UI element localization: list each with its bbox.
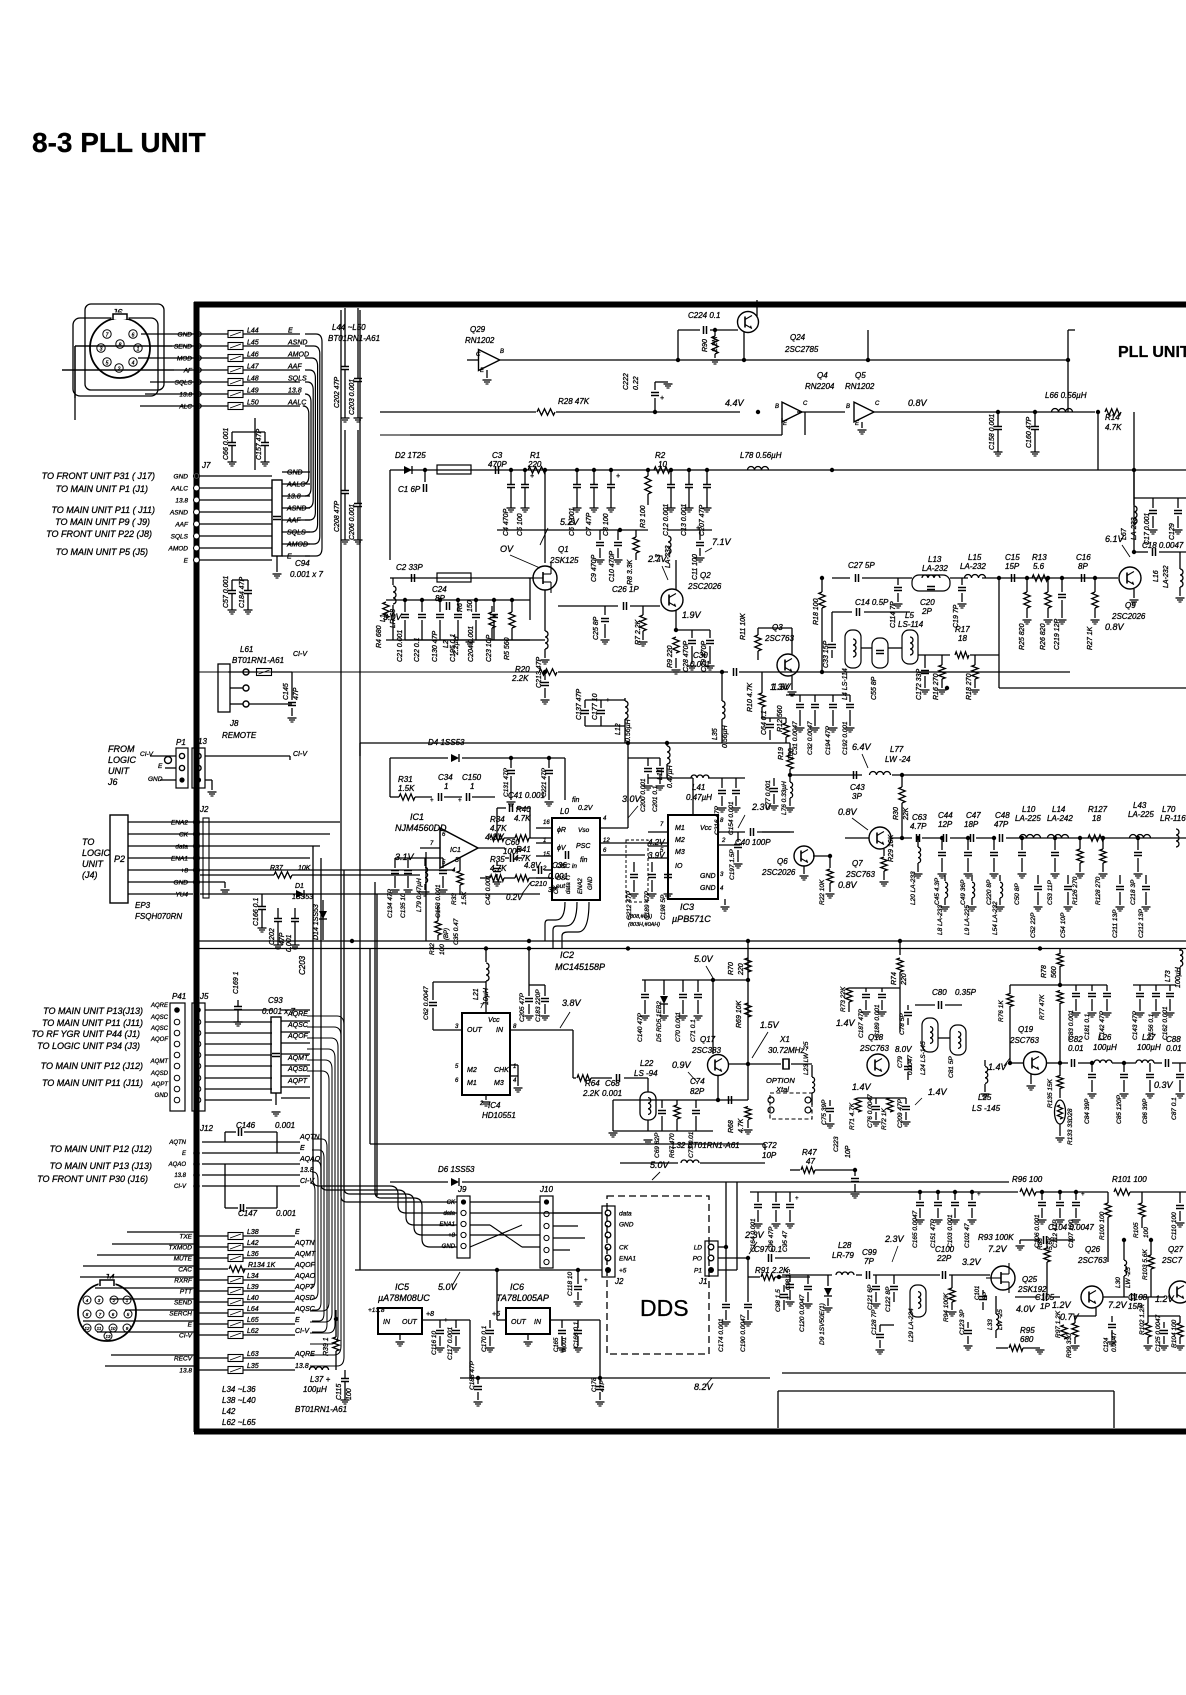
svg-text:1: 1: [470, 782, 474, 791]
svg-text:(803H,#0AH): (803H,#0AH): [628, 922, 660, 928]
svg-text:C: C: [875, 401, 880, 407]
svg-text:3: 3: [100, 346, 103, 352]
svg-text:Q19: Q19: [1018, 1025, 1034, 1034]
svg-text:L78 0.56µH: L78 0.56µH: [740, 451, 782, 460]
svg-text:J13: J13: [193, 737, 207, 746]
svg-text:C174 0.001: C174 0.001: [718, 1318, 725, 1352]
svg-text:TO LOGIC UNIT P34 (J3): TO LOGIC UNIT P34 (J3): [37, 1041, 140, 1051]
svg-text:CHK: CHK: [494, 1067, 509, 1074]
svg-text:C134 47P: C134 47P: [387, 888, 394, 918]
svg-text:L54 LA-232: L54 LA-232: [992, 901, 999, 935]
svg-text:47P: 47P: [293, 687, 300, 700]
svg-text:L44: L44: [247, 328, 259, 335]
svg-text:C103 0.001: C103 0.001: [947, 1214, 954, 1248]
svg-text:C11 100: C11 100: [692, 554, 699, 580]
svg-text:C183 220P: C183 220P: [535, 989, 542, 1022]
svg-text:AQOF: AQOF: [150, 1037, 168, 1043]
svg-text:R19: R19: [778, 747, 785, 760]
svg-text:C63: C63: [912, 813, 927, 822]
svg-text:C137 47P: C137 47P: [576, 689, 583, 720]
svg-text:D5 RD5.1EB2: D5 RD5.1EB2: [656, 1001, 663, 1042]
svg-text:TO MAIN UNIT P13(J13): TO MAIN UNIT P13(J13): [43, 1006, 143, 1016]
svg-text:R7 2.2K: R7 2.2K: [635, 619, 642, 645]
svg-text:L13: L13: [928, 555, 942, 564]
svg-text:AQSD: AQSD: [150, 1071, 169, 1077]
svg-text:Q7: Q7: [852, 859, 863, 868]
svg-text:22K: 22K: [903, 807, 910, 821]
svg-text:ϕV: ϕV: [557, 845, 567, 852]
svg-text:5.2V: 5.2V: [560, 517, 580, 527]
svg-text:4.7K: 4.7K: [490, 824, 507, 833]
svg-text:4.7K: 4.7K: [1105, 423, 1122, 432]
svg-text:AQAO: AQAO: [299, 1156, 321, 1163]
svg-text:2SC2026: 2SC2026: [687, 582, 722, 591]
svg-text:C218 3P: C218 3P: [1130, 879, 1137, 905]
svg-text:R27 1K: R27 1K: [1087, 626, 1094, 650]
svg-text:2.2M: 2.2M: [712, 336, 719, 353]
svg-text:4.0V: 4.0V: [1016, 1304, 1036, 1314]
svg-text:C54 10P: C54 10P: [1060, 912, 1067, 938]
svg-text:AQMT: AQMT: [287, 1055, 309, 1062]
svg-text:E: E: [184, 558, 189, 565]
svg-text:M2: M2: [467, 1067, 477, 1074]
svg-text:LOGIC: LOGIC: [108, 755, 137, 765]
svg-text:TO FRONT UNIT P31 ( J17): TO FRONT UNIT P31 ( J17): [42, 471, 155, 481]
svg-text:GND: GND: [155, 1093, 169, 1099]
svg-text:C98 1.5: C98 1.5: [775, 1289, 782, 1312]
svg-text:R6: R6: [457, 603, 464, 612]
svg-text:2.3V: 2.3V: [884, 1234, 905, 1244]
svg-text:J2: J2: [614, 1277, 624, 1286]
svg-text:L62: L62: [247, 1328, 259, 1335]
svg-text:(BP): (BP): [444, 928, 450, 940]
svg-text:AQSC: AQSC: [150, 1015, 169, 1021]
svg-text:L49: L49: [247, 388, 259, 395]
svg-text:100µH: 100µH: [1175, 966, 1182, 988]
svg-text:R8 3.3K: R8 3.3K: [627, 559, 634, 585]
svg-text:2SK125: 2SK125: [549, 556, 579, 565]
svg-text:B: B: [846, 404, 850, 410]
svg-text:L27: L27: [1142, 1033, 1156, 1042]
svg-text:C30: C30: [693, 651, 708, 660]
svg-text:P1: P1: [176, 738, 186, 747]
svg-text:AQTN: AQTN: [299, 1134, 320, 1141]
svg-text:P2: P2: [114, 854, 125, 864]
svg-text:GND: GND: [700, 873, 716, 880]
svg-text:CAC: CAC: [178, 1267, 192, 1274]
svg-text:LA-225: LA-225: [1128, 810, 1154, 819]
svg-text:C95 47: C95 47: [782, 1231, 789, 1252]
svg-text:R3 100: R3 100: [640, 505, 647, 528]
svg-text:8.0V: 8.0V: [895, 1045, 912, 1054]
svg-text:C172 33P: C172 33P: [916, 669, 923, 700]
svg-text:µA78M08UC: µA78M08UC: [378, 1293, 430, 1303]
svg-text:C97 0.1: C97 0.1: [754, 1245, 782, 1254]
svg-text:C15: C15: [1005, 553, 1020, 562]
svg-text:10: 10: [110, 1326, 116, 1331]
svg-text:+5: +5: [619, 1268, 627, 1275]
svg-text:3P: 3P: [548, 887, 557, 894]
svg-text:CI-V: CI-V: [293, 651, 308, 658]
svg-text:TO MAIN UNIT P12 (J12): TO MAIN UNIT P12 (J12): [41, 1061, 143, 1071]
svg-text:L3: L3: [655, 554, 662, 562]
svg-text:L46: L46: [247, 352, 259, 359]
svg-text:BT01RN1-A61: BT01RN1-A61: [295, 1405, 347, 1414]
svg-text:C135 10: C135 10: [400, 893, 407, 918]
svg-text:AALC: AALC: [286, 482, 306, 489]
svg-text:47: 47: [806, 1157, 815, 1166]
svg-text:LOGIC: LOGIC: [82, 848, 111, 858]
svg-text:BT01RN1-A61: BT01RN1-A61: [328, 334, 380, 343]
svg-text:+13.8: +13.8: [368, 1307, 385, 1314]
svg-text:J6: J6: [107, 777, 118, 787]
svg-text:+: +: [606, 698, 610, 704]
svg-text:R18 100: R18 100: [813, 598, 820, 625]
svg-text:PO: PO: [693, 1256, 702, 1263]
svg-text:C: C: [476, 352, 481, 358]
svg-text:Xtal: Xtal: [775, 1085, 789, 1094]
svg-text:18P: 18P: [964, 820, 979, 829]
svg-text:C222: C222: [623, 373, 630, 390]
svg-text:C150: C150: [462, 773, 482, 782]
svg-text:CK: CK: [619, 1245, 629, 1252]
svg-text:RXRF: RXRF: [174, 1278, 193, 1285]
svg-text:C7 47P: C7 47P: [586, 512, 593, 536]
svg-text:R17: R17: [955, 625, 970, 634]
svg-text:TO: TO: [82, 837, 94, 847]
svg-text:GND: GND: [178, 332, 193, 339]
svg-text:L79 0.47µH: L79 0.47µH: [416, 878, 423, 912]
svg-text:3.2V: 3.2V: [962, 1257, 982, 1267]
svg-text:C84 39P: C84 39P: [1084, 1098, 1091, 1124]
svg-text:8P: 8P: [1078, 562, 1088, 571]
svg-text:R135 15K: R135 15K: [1047, 1078, 1054, 1108]
svg-text:1.2V: 1.2V: [1052, 1300, 1072, 1310]
svg-text:AQSC: AQSC: [287, 1022, 309, 1029]
svg-text:2SC763: 2SC763: [845, 870, 875, 879]
svg-text:CK: CK: [447, 1200, 456, 1206]
svg-text:J5: J5: [199, 992, 209, 1001]
svg-text:2SC7: 2SC7: [1161, 1256, 1183, 1265]
svg-text:C24: C24: [432, 585, 447, 594]
svg-text:L41: L41: [692, 783, 705, 792]
svg-text:+: +: [696, 525, 700, 532]
svg-text:IN: IN: [496, 1027, 504, 1034]
svg-text:100P: 100P: [503, 847, 522, 856]
svg-text:1.4V: 1.4V: [988, 1062, 1008, 1072]
svg-text:ENA1: ENA1: [171, 856, 188, 863]
svg-text:R30: R30: [893, 807, 900, 820]
svg-text:4.7P: 4.7P: [910, 822, 927, 831]
svg-text:L45: L45: [247, 340, 259, 347]
svg-text:GND: GND: [174, 474, 189, 481]
svg-text:C41 0.001: C41 0.001: [508, 791, 545, 800]
svg-text:UNIT: UNIT: [82, 859, 104, 869]
svg-text:Q2: Q2: [700, 571, 711, 580]
svg-text:+: +: [786, 1296, 790, 1302]
svg-text:LA-225: LA-225: [1015, 814, 1041, 823]
svg-text:5.6: 5.6: [1033, 562, 1045, 571]
svg-text:C9 470P: C9 470P: [591, 554, 598, 582]
svg-text:TO MAIN UNIT P11 ( J11): TO MAIN UNIT P11 ( J11): [51, 505, 155, 515]
svg-text:AAF: AAF: [174, 522, 189, 529]
svg-text:L30: L30: [1115, 1277, 1122, 1288]
svg-text:R12 560: R12 560: [777, 705, 784, 732]
svg-text:IN: IN: [534, 1319, 542, 1326]
svg-text:L34 ~L36: L34 ~L36: [222, 1385, 256, 1394]
svg-text:C70 0.001: C70 0.001: [675, 1012, 682, 1042]
svg-text:C145: C145: [283, 683, 290, 700]
svg-text:NJM4560DD: NJM4560DD: [395, 823, 447, 833]
svg-text:AQRE: AQRE: [150, 1003, 169, 1009]
svg-text:C158 0.001: C158 0.001: [989, 414, 996, 450]
svg-text:C76 0.0047: C76 0.0047: [867, 1094, 874, 1128]
svg-text:L29 LA-234: L29 LA-234: [908, 1308, 915, 1342]
svg-text:2.2K: 2.2K: [511, 674, 529, 683]
svg-text:C99: C99: [862, 1248, 877, 1257]
svg-text:C212 13P: C212 13P: [1138, 908, 1145, 938]
svg-text:47P: 47P: [279, 932, 286, 945]
svg-text:680: 680: [1020, 1335, 1034, 1344]
svg-text:560: 560: [1051, 966, 1058, 978]
svg-text:AQMT: AQMT: [294, 1251, 316, 1258]
svg-text:C68: C68: [605, 1079, 620, 1088]
svg-text:AAF: AAF: [286, 518, 301, 525]
svg-text:C49 36P: C49 36P: [960, 879, 967, 905]
svg-text:C5 100: C5 100: [517, 513, 524, 536]
svg-text:ϕR: ϕR: [557, 827, 566, 834]
svg-text:100: 100: [346, 1388, 353, 1400]
svg-text:C43: C43: [850, 783, 865, 792]
svg-text:13.8: 13.8: [300, 1167, 314, 1174]
svg-text:TA78L005AP: TA78L005AP: [496, 1293, 549, 1303]
svg-text:R2: R2: [655, 451, 666, 460]
svg-text:R11 10K: R11 10K: [740, 613, 747, 640]
svg-text:OV: OV: [500, 544, 514, 554]
svg-text:C20: C20: [920, 598, 935, 607]
svg-text:L10: L10: [1022, 805, 1036, 814]
svg-text:220: 220: [901, 973, 908, 986]
svg-text:R1: R1: [530, 451, 540, 460]
svg-text:L40: L40: [247, 1295, 259, 1302]
svg-text:L65: L65: [247, 1317, 259, 1324]
svg-text:C166 0.1: C166 0.1: [253, 897, 260, 926]
svg-text:C69 82P: C69 82P: [654, 1132, 661, 1158]
svg-text:R9 220: R9 220: [667, 645, 674, 668]
svg-text:E: E: [295, 1317, 300, 1324]
svg-text:C208 47P: C208 47P: [334, 501, 341, 532]
svg-text:C212 47P: C212 47P: [626, 890, 633, 920]
svg-text:R69 10K: R69 10K: [736, 1000, 743, 1028]
svg-text:L77: L77: [890, 745, 904, 754]
svg-text:100µH: 100µH: [303, 1385, 327, 1394]
svg-text:M1: M1: [675, 825, 685, 832]
svg-text:C203: C203: [298, 955, 307, 975]
svg-text:R95: R95: [1020, 1326, 1035, 1335]
svg-text:R18 270: R18 270: [966, 673, 973, 700]
svg-text:C165 0.0047: C165 0.0047: [912, 1210, 919, 1248]
svg-text:C118 10: C118 10: [567, 1272, 574, 1296]
svg-text:+: +: [458, 798, 462, 804]
svg-text:GND: GND: [174, 880, 189, 887]
svg-text:13.8: 13.8: [179, 1368, 192, 1375]
svg-text:L64: L64: [247, 1306, 259, 1313]
svg-text:TO RF YGR UNIT P44 (J1): TO RF YGR UNIT P44 (J1): [31, 1029, 140, 1039]
svg-text:R37: R37: [270, 865, 284, 872]
svg-text:L34: L34: [247, 1273, 259, 1280]
svg-text:C213 47P: C213 47P: [536, 657, 543, 688]
svg-text:TO MAIN UNIT P9 ( J9): TO MAIN UNIT P9 ( J9): [55, 517, 150, 527]
svg-text:0.001 x 7: 0.001 x 7: [290, 570, 323, 579]
svg-text:TO MAIN UNIT P11 (J11): TO MAIN UNIT P11 (J11): [42, 1018, 143, 1028]
svg-text:SQLS: SQLS: [171, 534, 189, 541]
svg-text:L35: L35: [712, 728, 719, 740]
svg-text:100µH: 100µH: [1137, 1043, 1161, 1052]
svg-text:C198 5P: C198 5P: [660, 894, 667, 920]
svg-text:8P: 8P: [435, 594, 445, 603]
svg-text:R101 100: R101 100: [1112, 1175, 1147, 1184]
svg-text:MC145158P: MC145158P: [555, 962, 605, 972]
svg-text:C80: C80: [932, 988, 947, 997]
svg-text:18: 18: [1092, 814, 1101, 823]
svg-text:AAF: AAF: [287, 364, 302, 371]
svg-text:C169 1: C169 1: [233, 971, 240, 994]
svg-text:J7: J7: [201, 461, 211, 470]
svg-text:150: 150: [467, 600, 474, 612]
svg-text:100µH: 100µH: [1093, 1043, 1117, 1052]
svg-text:13.8: 13.8: [288, 388, 302, 395]
svg-text:C104 0.0047: C104 0.0047: [1048, 1223, 1094, 1232]
svg-text:2.3V: 2.3V: [744, 1230, 765, 1240]
svg-text:R102 1.2K: R102 1.2K: [1139, 1304, 1146, 1335]
svg-text:C101: C101: [975, 1286, 981, 1300]
svg-text:L61: L61: [240, 645, 253, 654]
svg-text:C31 0.0047: C31 0.0047: [792, 721, 799, 755]
svg-text:L0: L0: [560, 807, 569, 816]
svg-text:GND: GND: [588, 876, 594, 890]
svg-text:L9 LA-225: L9 LA-225: [964, 905, 971, 935]
svg-text:5.0V: 5.0V: [438, 1282, 458, 1292]
svg-text:TO MAIN UNIT P12 (J12): TO MAIN UNIT P12 (J12): [50, 1144, 152, 1154]
svg-text:2: 2: [542, 866, 547, 872]
svg-text:D4 1SS53: D4 1SS53: [428, 738, 465, 747]
svg-text:C87 0.1: C87 0.1: [1171, 1097, 1178, 1120]
svg-text:CI-V: CI-V: [174, 1184, 187, 1190]
svg-text:D9 1SV50E(1): D9 1SV50E(1): [819, 1303, 826, 1345]
svg-text:L70: L70: [1162, 805, 1176, 814]
svg-text:C53 11P: C53 11P: [1047, 880, 1054, 905]
svg-text:CI-V: CI-V: [293, 751, 308, 758]
svg-text:LA-232: LA-232: [960, 562, 986, 571]
svg-text:fin: fin: [572, 797, 580, 804]
svg-text:C50 8P: C50 8P: [1014, 883, 1021, 905]
svg-text:C36: C36: [552, 861, 567, 870]
svg-text:HD10551: HD10551: [482, 1111, 516, 1120]
svg-text:6: 6: [132, 332, 135, 338]
svg-text:0.56µH: 0.56µH: [722, 724, 729, 748]
svg-text:MOD: MOD: [177, 356, 192, 363]
svg-text:0.47µH: 0.47µH: [686, 793, 712, 802]
svg-text:LA-233: LA-233: [1131, 517, 1138, 540]
svg-text:12P: 12P: [938, 820, 953, 829]
svg-text:LS -145: LS -145: [972, 1104, 1001, 1113]
svg-text:IC5: IC5: [395, 1282, 410, 1292]
svg-text:4.7K: 4.7K: [514, 814, 531, 823]
svg-text:RN2204: RN2204: [805, 382, 835, 391]
svg-text:J2: J2: [199, 805, 209, 814]
svg-text:C192 0.001: C192 0.001: [842, 721, 849, 755]
svg-text:LR-79: LR-79: [832, 1251, 854, 1260]
svg-text:RN1202: RN1202: [465, 336, 495, 345]
svg-text:PLL UNIT: PLL UNIT: [1118, 344, 1186, 361]
svg-text:C74: C74: [690, 1077, 705, 1086]
svg-text:1.5K: 1.5K: [461, 891, 468, 905]
svg-text:2.2µH: 2.2µH: [453, 635, 460, 656]
svg-text:C64 0.1: C64 0.1: [761, 710, 768, 735]
svg-text:+: +: [584, 1278, 588, 1284]
svg-text:+8: +8: [181, 868, 189, 875]
svg-text:LA-232: LA-232: [1163, 565, 1170, 588]
svg-text:L36: L36: [247, 1251, 259, 1258]
svg-text:C206 0.001: C206 0.001: [349, 504, 356, 540]
svg-text:ALC: ALC: [178, 404, 192, 411]
svg-text:IC6: IC6: [510, 1282, 524, 1292]
svg-text:R94 100K: R94 100K: [943, 1292, 950, 1322]
svg-text:FSQH070RN: FSQH070RN: [135, 912, 182, 921]
svg-text:IC1: IC1: [410, 812, 424, 822]
svg-text:+: +: [616, 473, 620, 480]
svg-text:C121 6P: C121 6P: [867, 1284, 874, 1310]
svg-text:R16 270: R16 270: [933, 673, 940, 700]
svg-text:C55 8P: C55 8P: [871, 676, 878, 700]
svg-text:MUTE: MUTE: [174, 1256, 193, 1263]
svg-text:M3: M3: [494, 1080, 504, 1087]
svg-text:4: 4: [132, 360, 135, 366]
svg-text:13.8: 13.8: [287, 494, 301, 501]
svg-text:C220 8P: C220 8P: [986, 879, 993, 905]
svg-text:1.9V: 1.9V: [682, 610, 702, 620]
svg-text:18: 18: [958, 634, 967, 643]
svg-text:R127: R127: [1088, 805, 1108, 814]
svg-text:D2 1T25: D2 1T25: [395, 451, 426, 460]
svg-text:C187 47P: C187 47P: [858, 1008, 865, 1038]
svg-text:D6 1SS53: D6 1SS53: [438, 1165, 475, 1174]
svg-text:1.4V: 1.4V: [852, 1082, 872, 1092]
svg-text:E: E: [295, 1229, 300, 1236]
svg-text:R4 680: R4 680: [376, 625, 383, 648]
svg-text:0.7V: 0.7V: [1060, 1312, 1080, 1322]
svg-text:TO MAIN UNIT P11 (J11): TO MAIN UNIT P11 (J11): [42, 1078, 143, 1088]
svg-text:R64: R64: [585, 1079, 600, 1088]
svg-text:+8: +8: [426, 1311, 434, 1318]
svg-text:C211 13P: C211 13P: [1112, 909, 1119, 938]
svg-text:C: C: [803, 401, 808, 407]
svg-text:C28 470P: C28 470P: [683, 641, 690, 672]
svg-text:8-3 PLL UNIT: 8-3 PLL UNIT: [32, 127, 206, 158]
svg-text:C57 0.001: C57 0.001: [223, 576, 230, 608]
svg-text:ASND: ASND: [287, 340, 307, 347]
svg-text:C190 0.0047: C190 0.0047: [740, 1314, 747, 1352]
svg-text:L35: L35: [247, 1363, 259, 1370]
svg-text:C79: C79: [897, 1056, 904, 1068]
svg-text:+: +: [530, 473, 534, 480]
svg-text:C88: C88: [1166, 1035, 1181, 1044]
svg-text:C81 5P: C81 5P: [948, 1056, 955, 1078]
svg-text:220: 220: [738, 963, 745, 976]
svg-text:1.3V: 1.3V: [772, 682, 792, 692]
svg-text:C200 0.001: C200 0.001: [640, 778, 647, 812]
svg-text:C201 0.1: C201 0.1: [652, 785, 659, 812]
